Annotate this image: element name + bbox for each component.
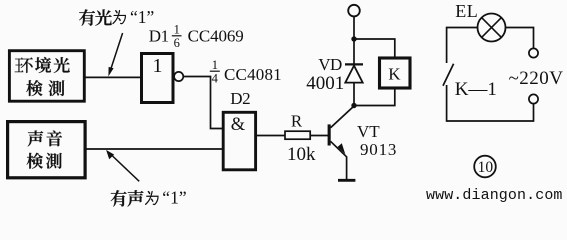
svg-text:VD: VD: [318, 55, 342, 74]
svg-text:9013: 9013: [360, 140, 397, 159]
wire lamp right to mains top terminal: [506, 28, 534, 49]
svg-text:D1: D1: [149, 26, 169, 45]
junction node at collector top: [351, 36, 356, 41]
svg-text:“1”: “1”: [130, 7, 154, 27]
wire relay top branch: [354, 39, 395, 57]
svg-text:K—1: K—1: [455, 79, 497, 100]
svg-text:www.diangon.com: www.diangon.com: [426, 187, 563, 204]
wire collector to supply terminal: [353, 16, 355, 106]
svg-text:4001: 4001: [306, 73, 344, 94]
text 环境光 (box 1 line 1): [15, 57, 70, 73]
svg-text:10k: 10k: [287, 144, 316, 165]
svg-text:VT: VT: [357, 122, 380, 141]
svg-text:6: 6: [174, 36, 180, 50]
svg-text:EL: EL: [455, 1, 478, 21]
AND gate D2 box with ampersand: [223, 112, 255, 170]
wire D2 output to R: [257, 135, 285, 137]
wire R to VT base: [310, 135, 328, 137]
wire D1 output to D2 upper input: [184, 77, 222, 129]
ground: [338, 179, 355, 182]
mains terminal top: [529, 48, 538, 57]
fraction 1/6: [172, 35, 182, 37]
svg-text:CC4069: CC4069: [188, 26, 244, 45]
diode VD cathode bar: [345, 63, 363, 65]
svg-text:1: 1: [212, 58, 218, 72]
svg-text:1: 1: [153, 55, 163, 77]
transistor emitter arrow: [338, 143, 346, 154]
svg-text:10: 10: [478, 159, 494, 176]
label: sound means 1: [111, 188, 187, 208]
svg-text:4: 4: [212, 71, 219, 85]
pointer arrow to sound wire: [106, 150, 139, 181]
wire switch K-1 blade: [443, 64, 454, 86]
svg-text:D2: D2: [230, 89, 250, 108]
pointer arrow to light wire: [108, 33, 122, 76]
lamp EL circle with cross: [478, 14, 506, 42]
inverter D1 box with 1: [142, 54, 174, 103]
text 检测 (box 1 line 2): [26, 80, 64, 96]
svg-text:R: R: [291, 111, 303, 130]
diode VD triangle: [345, 66, 362, 83]
relay K box: [380, 58, 411, 88]
svg-text:CC4081: CC4081: [224, 65, 282, 84]
wire VT emitter: [331, 141, 347, 179]
mains terminal bottom: [529, 94, 538, 103]
text 声音 (box 2 line 1): [28, 130, 62, 146]
label: light means 1: [79, 7, 154, 27]
wire lamp left to switch: [447, 28, 478, 64]
text 检测 (box 2 line 2): [27, 153, 62, 169]
wire sound-detect to D2 lower input: [86, 148, 222, 150]
svg-text:&: &: [231, 115, 246, 135]
inverter output bubble: [174, 72, 183, 81]
svg-text:~220V: ~220V: [509, 68, 564, 89]
wire switch bottom to mains bottom: [447, 85, 534, 121]
fraction 1/4: [210, 70, 220, 72]
wire VT collector: [331, 106, 355, 128]
wire relay bottom branch: [354, 89, 395, 106]
figure number 10 circled: [474, 156, 496, 178]
wire light-detect to D1: [85, 76, 141, 78]
block box: ambient light detect 环境光检测: [9, 51, 84, 101]
transistor VT base bar: [328, 124, 331, 145]
supply terminal circle: [348, 5, 360, 17]
svg-text:“1”: “1”: [162, 188, 186, 208]
svg-text:K: K: [388, 65, 401, 84]
block box: sound detect 声音检测: [8, 122, 86, 178]
resistor R body: [285, 131, 310, 139]
svg-text:1: 1: [174, 23, 180, 37]
junction node at collector bottom: [351, 103, 356, 108]
